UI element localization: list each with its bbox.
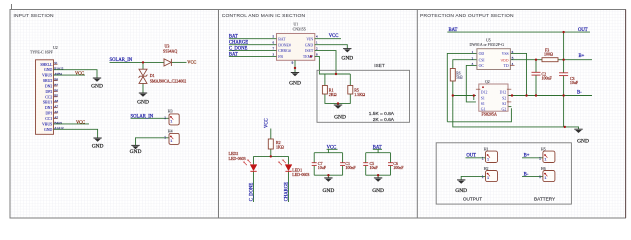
svg-text:B+: B+ [524, 154, 530, 159]
svg-text:U2: U2 [53, 46, 58, 50]
svg-text:1: 1 [482, 156, 484, 160]
svg-text:TD: TD [504, 64, 509, 68]
svg-text:BAT: BAT [229, 35, 238, 40]
svg-text:CONTROL AND MAIN IC SECTION: CONTROL AND MAIN IC SECTION [222, 13, 306, 19]
svg-text:C_DONE: C_DONE [250, 183, 255, 202]
svg-text:GND: GND [91, 84, 103, 90]
svg-text:5: 5 [512, 56, 514, 60]
svg-text:DP2: DP2 [45, 90, 52, 94]
svg-text:10uF: 10uF [318, 165, 327, 170]
svg-text:B-: B- [524, 172, 529, 177]
svg-text:GND: GND [44, 128, 53, 132]
svg-text:SBU2: SBU2 [43, 79, 52, 83]
svg-text:GND: GND [130, 149, 142, 155]
svg-text:VCC: VCC [265, 118, 270, 128]
svg-text:DN1: DN1 [45, 106, 53, 110]
svg-text:100nF: 100nF [393, 165, 404, 170]
svg-text:2K = 0.6A: 2K = 0.6A [373, 117, 395, 123]
svg-text:GND: GND [305, 43, 314, 47]
svg-text:D1: D1 [150, 73, 155, 78]
svg-text:1: 1 [544, 157, 546, 161]
svg-text:ISET: ISET [305, 49, 314, 53]
svg-text:DW01A or FS312F-G: DW01A or FS312F-G [470, 43, 505, 47]
svg-text:GND: GND [577, 138, 589, 144]
svg-text:DN2: DN2 [45, 85, 53, 89]
svg-text:1: 1 [170, 119, 172, 123]
svg-text:D12: D12 [481, 91, 488, 95]
svg-text:VIN: VIN [306, 37, 313, 41]
svg-text:VCC: VCC [76, 119, 85, 124]
svg-text:G1: G1 [481, 107, 486, 111]
svg-text:GND: GND [137, 99, 149, 105]
svg-text:SS34AQ: SS34AQ [163, 49, 177, 54]
svg-text:100Ω: 100Ω [544, 52, 553, 57]
svg-text:B-: B- [577, 91, 582, 96]
svg-text:SHELL: SHELL [40, 63, 53, 67]
svg-text:GND: GND [341, 56, 353, 62]
svg-text:1.5K = 0.8A: 1.5K = 0.8A [369, 111, 395, 117]
svg-text:BAT: BAT [278, 37, 286, 41]
svg-text:S1: S1 [481, 102, 485, 106]
svg-text:CC2: CC2 [45, 95, 52, 99]
svg-text:TEMP: TEMP [303, 55, 313, 59]
svg-text:OUT: OUT [466, 154, 476, 159]
svg-text:CHRG#: CHRG# [278, 49, 291, 53]
svg-text:2KΩ: 2KΩ [329, 92, 337, 97]
svg-text:SOLAR_IN: SOLAR_IN [131, 115, 154, 120]
svg-text:VCC: VCC [187, 60, 196, 65]
svg-text:10uF: 10uF [370, 165, 379, 170]
svg-text:100nF: 100nF [542, 76, 553, 81]
svg-text:SOLAR_IN: SOLAR_IN [110, 58, 133, 63]
svg-text:B+: B+ [579, 54, 585, 59]
svg-text:1: 1 [544, 176, 546, 180]
svg-text:9: 9 [292, 61, 294, 65]
svg-text:VBUS: VBUS [42, 74, 52, 78]
svg-text:SMAJ90CA_C224002: SMAJ90CA_C224002 [150, 79, 186, 84]
svg-text:D12: D12 [500, 91, 507, 95]
svg-text:1: 1 [164, 136, 166, 140]
svg-text:CN3155: CN3155 [293, 27, 306, 31]
svg-text:OUTPUT: OUTPUT [463, 196, 482, 201]
svg-text:OC: OC [479, 64, 485, 68]
svg-text:1: 1 [487, 157, 489, 161]
svg-text:VCC: VCC [329, 34, 339, 39]
svg-text:G2: G2 [501, 107, 506, 111]
svg-text:C_DONE: C_DONE [229, 47, 248, 52]
svg-text:VBUS: VBUS [42, 122, 52, 126]
svg-text:OD: OD [479, 52, 485, 56]
svg-text:PROTECTION AND OUTPUT SECTION: PROTECTION AND OUTPUT SECTION [420, 13, 514, 19]
svg-text:10uF: 10uF [570, 80, 579, 85]
svg-text:1.5KΩ: 1.5KΩ [354, 92, 365, 97]
svg-text:LED-0603: LED-0603 [229, 156, 246, 161]
svg-text:100nF: 100nF [345, 165, 356, 170]
svg-text:FB: FB [278, 55, 283, 59]
svg-text:1: 1 [164, 116, 166, 120]
svg-text:CC1: CC1 [45, 117, 52, 121]
svg-text:Q2: Q2 [485, 80, 490, 84]
svg-text:OUT: OUT [578, 28, 588, 33]
svg-text:SBU1: SBU1 [43, 101, 52, 105]
svg-text:U1: U1 [294, 23, 299, 27]
svg-text:CHARGE: CHARGE [285, 182, 290, 201]
svg-text:INPUT SECTION: INPUT SECTION [14, 13, 55, 19]
svg-text:BAT: BAT [229, 52, 238, 57]
svg-text:U5: U5 [486, 38, 491, 42]
svg-text:ISET: ISET [374, 63, 385, 68]
svg-text:H3: H3 [168, 110, 173, 114]
svg-text:DONE#: DONE# [278, 43, 291, 47]
svg-text:1: 1 [482, 175, 484, 179]
svg-text:1KΩ: 1KΩ [276, 144, 284, 149]
svg-text:GND: GND [372, 188, 384, 194]
svg-text:5kΩ: 5kΩ [456, 76, 463, 80]
svg-text:DP1: DP1 [45, 112, 52, 116]
svg-text:1: 1 [539, 156, 541, 160]
svg-text:1: 1 [487, 176, 489, 180]
svg-text:GND: GND [334, 115, 346, 121]
svg-text:GND: GND [323, 188, 335, 194]
svg-text:1: 1 [539, 175, 541, 179]
svg-text:S2: S2 [502, 102, 506, 106]
svg-text:CHARGE: CHARGE [229, 41, 248, 46]
svg-text:S2: S2 [502, 96, 506, 100]
svg-text:BAT: BAT [449, 28, 458, 33]
svg-text:VDD: VDD [501, 58, 509, 62]
svg-text:H4: H4 [168, 129, 173, 133]
svg-text:1: 1 [170, 139, 172, 143]
svg-text:S1: S1 [481, 96, 485, 100]
svg-text:TYPE-C 16PF: TYPE-C 16PF [30, 51, 54, 55]
svg-text:FS8205A: FS8205A [482, 112, 497, 117]
svg-text:GND: GND [289, 81, 301, 87]
svg-text:CSI: CSI [479, 58, 486, 62]
svg-text:GND: GND [44, 68, 53, 72]
svg-text:GND: GND [92, 144, 104, 150]
svg-text:LED-0603: LED-0603 [292, 172, 309, 177]
svg-text:VCC: VCC [75, 71, 84, 76]
svg-text:GND: GND [455, 188, 467, 194]
svg-text:BATTERY: BATTERY [534, 196, 556, 201]
svg-text:VSS: VSS [502, 52, 509, 56]
